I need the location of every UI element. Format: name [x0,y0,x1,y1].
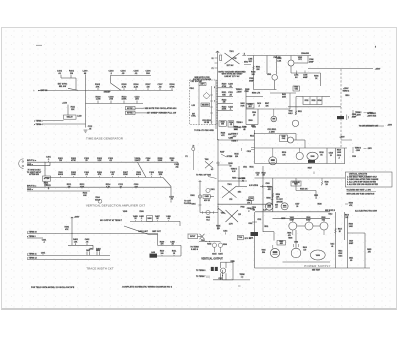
resistor R209 [170,158,175,162]
tube V606 [310,250,325,260]
wire [290,56,292,74]
svg-text:T202: T202 [205,159,209,161]
tube V304 [218,243,227,252]
svg-text:VOLTAGES MAY VARY +/- 20%: VOLTAGES MAY VARY +/- 20% [347,189,372,192]
capacitor C101 [57,71,63,78]
resistor R208 [158,158,164,162]
tube V507B [296,148,303,160]
wire [198,235,202,237]
svg-text:GT: GT [275,207,278,209]
notes box [345,172,392,187]
svg-text:REG: REG [294,184,298,186]
wire [257,109,259,125]
power bus dashed [340,69,342,148]
svg-text:CTRL: CTRL [191,115,196,117]
cluster [248,222,257,225]
note text [325,209,378,212]
label cluster [317,204,321,206]
wire [223,279,251,281]
svg-text:CRITICAL CIRCUITS: CRITICAL CIRCUITS [349,173,368,176]
label [191,113,196,117]
ground [84,130,88,132]
svg-text:.05: .05 [89,128,92,130]
svg-text:PRI: PRI [234,58,237,60]
label [345,95,356,158]
pot box R406 [147,216,153,222]
wire [255,147,348,149]
title text [31,286,75,289]
node INPUT A [27,159,37,162]
svg-text:o TERM 12: o TERM 12 [27,258,37,260]
label [191,81,204,83]
svg-text:VERTICAL OUTPUT: VERTICAL OUTPUT [201,258,223,261]
capacitor C408 [170,240,174,245]
wire [283,261,331,263]
svg-text:1M: 1M [70,73,73,75]
svg-text:C403: C403 [86,249,90,252]
label [214,87,215,103]
svg-text:INPUT A o: INPUT A o [27,159,37,162]
svg-text:6.3V: 6.3V [192,105,196,107]
svg-text:22K: 22K [159,174,163,176]
svg-text:C321: C321 [218,278,222,280]
svg-text:.1: .1 [244,129,245,131]
wire [85,75,87,104]
resistor R223 [218,106,234,110]
svg-text:250: 250 [135,99,139,101]
svg-text:+300V: +300V [74,217,80,219]
capacitor C404 [41,251,45,255]
wire [291,72,321,74]
capacitor C202 [84,158,89,162]
svg-text:WITH LINE AND TUBE CONDITION: WITH LINE AND TUBE CONDITION [347,192,375,195]
node SYNC [58,84,78,91]
svg-text:V508: V508 [311,156,315,158]
node TERM 4 [34,123,44,126]
svg-text:.02: .02 [159,86,163,88]
svg-text:R540: R540 [232,177,236,180]
capacitor C110 [135,96,141,103]
label [207,243,211,245]
terminal [353,147,373,153]
svg-text:220: 220 [235,156,238,158]
capacitor C201 [46,157,52,163]
wire [199,180,201,213]
svg-text:.02: .02 [109,160,112,162]
pot box R225 [228,121,234,127]
svg-text:100K: 100K [337,152,342,154]
wire [272,178,274,212]
wire [272,245,274,248]
svg-text:500: 500 [146,73,150,75]
connector J2 [192,146,195,151]
cluster [247,148,255,154]
svg-text:F1: F1 [212,68,214,70]
svg-text:R525 10K: R525 10K [300,189,308,191]
svg-text:V503: V503 [294,87,298,89]
svg-text:ATTEN SW: ATTEN SW [29,173,39,176]
svg-text:10K: 10K [265,106,269,108]
label cluster [231,141,237,143]
capacitor C402 [85,238,90,245]
node +150V [62,103,68,105]
label [345,215,349,219]
svg-text:V501: V501 [267,74,271,76]
svg-text:-150V: -150V [356,150,361,152]
label [329,153,333,157]
note text [145,107,178,110]
wire [271,186,273,204]
choke core [337,116,344,119]
wire [308,68,373,70]
svg-text:470K: 470K [71,159,76,162]
resistor R210 [158,172,163,178]
label [44,181,49,186]
svg-text:6.3: 6.3 [211,169,213,171]
svg-text:OA2: OA2 [282,137,286,140]
caption TIME BASE CIRCUIT [86,137,124,141]
svg-text:+150: +150 [62,103,68,105]
svg-text:10: 10 [230,165,232,167]
label [349,241,353,245]
wire [68,244,93,246]
svg-text:o TERM 10: o TERM 10 [27,232,37,234]
capacitor C405 [139,215,143,222]
note text [367,113,377,117]
resistor R401 [65,226,70,231]
capacitor C112 [88,126,92,130]
svg-text:R510: R510 [345,95,349,97]
svg-text:1K: 1K [173,253,176,255]
svg-text:POWER SUPPLY: POWER SUPPLY [304,264,331,268]
resistor R111 [71,107,76,111]
label [276,199,283,203]
wire [211,86,213,125]
svg-text:R408 C407: R408 C407 [138,230,148,233]
capacitor C212 [118,184,123,188]
label [375,69,381,71]
wire [135,112,146,114]
svg-text:.01: .01 [58,73,62,75]
svg-text:TO PIN 4 OF V205: TO PIN 4 OF V205 [196,173,211,176]
svg-text:C505: C505 [244,91,248,93]
adj box [246,103,254,108]
wire [273,218,331,220]
svg-text:R615: R615 [338,229,342,231]
resistor R316 [216,226,220,230]
svg-text:100: 100 [161,253,164,255]
svg-text:o TERM 3: o TERM 3 [34,120,43,122]
svg-text:DELAY: DELAY [67,116,74,119]
svg-text:T201: T201 [229,51,233,53]
svg-text:+350V BUS: +350V BUS [367,115,377,117]
label [231,169,237,173]
svg-text:.05: .05 [256,175,258,177]
resistor R615 [335,228,342,234]
capacitor C206 [84,172,89,178]
svg-text:15K: 15K [74,241,78,243]
connector P501 [249,197,254,204]
svg-text:TO TERM 7: TO TERM 7 [196,276,205,278]
wire [326,148,328,164]
attenuator box [43,176,51,181]
capacitor C403 [86,249,90,256]
svg-text:R508: R508 [266,197,270,199]
bus wire [217,140,219,230]
wire [44,162,46,176]
svg-text:FOR TELE-VISTA MODEL 12 OSCILL: FOR TELE-VISTA MODEL 12 OSCILLOSCOPE [31,286,75,289]
svg-text:1M: 1M [171,160,174,162]
comp tick [199,181,202,183]
capacitor C316 [223,230,227,234]
svg-text:C504 450V: C504 450V [301,52,310,55]
node TERM 3 [34,120,43,122]
label [232,177,236,180]
wire [200,212,218,214]
node INPUT GND [27,164,34,166]
svg-text:R513: R513 [312,100,316,102]
svg-text:+250V: +250V [339,137,345,139]
label cluster [231,134,237,138]
capacitor C208 [149,172,155,178]
transformer T302 [221,210,241,226]
svg-text:.05: .05 [111,174,115,176]
svg-text:.05: .05 [350,260,352,262]
label cluster [263,210,267,212]
svg-text:.25: .25 [253,115,255,117]
svg-text:4.7K: 4.7K [106,185,111,188]
input box [188,234,198,239]
wire [61,78,76,90]
svg-text:.1: .1 [151,174,154,176]
svg-text:10K: 10K [252,74,256,76]
svg-text:117V: 117V [229,224,234,226]
capacitor C506 [252,112,256,116]
svg-text:C530: C530 [352,156,356,158]
label cluster [251,126,255,128]
svg-text:6AK5: 6AK5 [218,253,222,256]
label [314,75,318,80]
wire [27,233,158,234]
svg-text:+350V: +350V [375,69,381,71]
svg-text:R606: R606 [287,233,291,235]
label cluster [265,103,269,107]
svg-text:3AP1: 3AP1 [200,83,204,86]
label [190,246,199,250]
wire [247,55,311,57]
svg-text:2.2K: 2.2K [97,160,102,162]
svg-text:C404: C404 [41,251,45,254]
resistor R524 [272,193,280,199]
cluster [294,242,299,247]
svg-text:1K: 1K [134,218,137,220]
page number [375,47,377,49]
svg-text:7: 7 [214,101,215,103]
svg-text:R509: R509 [248,120,252,122]
svg-text:330K: 330K [123,174,128,176]
resistor R503 [277,58,282,62]
label [274,57,281,59]
wire [296,191,316,199]
wire [138,162,147,177]
cluster [237,235,252,240]
svg-text:S501: S501 [244,62,248,64]
wire [294,134,306,149]
resistor R508 [266,197,273,199]
deflection diamond [203,93,210,100]
resistor R409 [160,240,164,245]
inductor L100 [83,70,89,74]
wire [71,217,73,245]
label cluster [234,127,247,131]
svg-text:L406: L406 [151,251,155,254]
svg-text:LINE AT 117 V AC: LINE AT 117 V AC [224,75,240,78]
label cluster [303,247,307,251]
svg-text:2.2K: 2.2K [134,86,139,88]
svg-text:.1: .1 [315,198,316,200]
svg-text:SWEEP: SWEEP [104,91,112,93]
svg-text:1K: 1K [315,78,318,80]
svg-text:470K: 470K [222,85,227,88]
wire [344,148,346,164]
note box 2 [126,111,136,114]
label [83,193,88,197]
resistor R203 [97,158,102,162]
svg-text:C511: C511 [257,219,261,221]
svg-text:.01: .01 [135,73,139,75]
svg-text:R610: R610 [303,247,307,249]
label [337,150,342,160]
svg-text:C513: C513 [247,151,251,153]
label [312,270,321,272]
tube V301 [206,188,215,192]
svg-text:C615: C615 [330,244,334,246]
svg-text:SEC: SEC [248,61,252,63]
svg-text:R608: R608 [288,238,292,240]
tube V502 [288,57,302,66]
svg-text:6AK5: 6AK5 [212,253,216,256]
wire [254,130,256,164]
label cluster [264,226,268,228]
resistor R220 [218,84,234,88]
svg-text:47K: 47K [96,85,100,88]
svg-text:.25: .25 [230,124,232,126]
label cluster [308,168,314,174]
svg-text:2.2K: 2.2K [277,61,281,63]
capacitor C401 [42,238,46,243]
svg-text:VERTICAL DEFLECTION AMPLIFIER: VERTICAL DEFLECTION AMPLIFIER CKT [86,203,145,207]
svg-text:6AU6: 6AU6 [136,173,141,176]
svg-text:GND o: GND o [27,164,34,166]
capacitor C107 [158,84,164,90]
tick [241,148,243,151]
capacitor C104 [121,70,127,76]
svg-text:TRACE WIDTH CKT: TRACE WIDTH CKT [86,267,114,271]
bus cluster [228,137,232,139]
svg-text:COMPLETE SCHEMATIC WIRING DIAG: COMPLETE SCHEMATIC WIRING DIAGRAM NO 2 [122,285,173,288]
svg-text:.05: .05 [147,160,151,162]
label cluster [282,93,287,98]
svg-text:R513: R513 [250,136,254,138]
wire [270,92,296,94]
svg-text:R527: R527 [308,168,312,170]
label [192,105,196,107]
label [184,200,192,204]
svg-text:HEATER: HEATER [202,103,210,106]
svg-text:470K: 470K [170,85,175,88]
svg-text:50K: 50K [221,124,225,126]
svg-text:117V AC: 117V AC [226,64,234,67]
svg-text:C608: C608 [294,242,298,244]
label [352,114,356,118]
pin ticks [210,95,213,113]
svg-text:22K: 22K [71,109,75,111]
tube V603 [320,217,328,230]
svg-text:5 AND 6: 5 AND 6 [191,248,198,251]
wire [192,151,194,170]
wire [335,212,337,268]
wire [27,190,90,192]
note text [100,219,122,222]
note text [347,189,377,196]
wire [198,85,200,124]
tube V501 [267,74,277,89]
capacitor C205 [174,162,179,168]
svg-text:SWP OUT: SWP OUT [152,231,161,233]
label cluster [295,204,299,208]
svg-text:.1: .1 [43,242,45,244]
svg-text:4.7K: 4.7K [122,85,127,88]
svg-text:R406: R406 [147,217,151,220]
svg-text:R514: R514 [318,99,322,102]
svg-text:1M: 1M [147,86,150,88]
node INPUT B [27,185,37,187]
svg-text:.1: .1 [48,159,51,161]
svg-text:SEE TEXT: SEE TEXT [312,270,321,272]
wire [158,244,182,246]
label [328,214,332,216]
inductor L110 [77,115,81,117]
svg-text:TERM 2: TERM 2 [343,91,350,93]
svg-text:2: 2 [214,87,215,89]
svg-text:V205: V205 [123,211,127,213]
svg-text:R301: R301 [191,204,195,206]
label [138,230,148,233]
capacitor C505 [303,71,308,79]
tube V201A [135,157,142,162]
svg-text:SEE NOTE FOR OSCILLATOR ADJ.: SEE NOTE FOR OSCILLATOR ADJ. [145,107,178,110]
svg-text:C509: C509 [265,183,269,185]
svg-text:C616: C616 [338,256,342,258]
wire [238,166,240,186]
wire [27,254,110,256]
tube V504b [288,93,298,127]
svg-text:PIN 1: PIN 1 [190,88,194,90]
label cluster [221,132,232,136]
svg-text:.1: .1 [230,109,232,111]
svg-text:P2: P2 [185,156,187,158]
svg-text:6.3V: 6.3V [232,171,236,173]
label cluster [240,274,246,278]
transformer T202 [205,159,214,171]
inductor L403 [89,247,101,250]
caption VERT OUTPUT [201,258,223,261]
wire [254,133,296,134]
resistor R106 [134,84,140,90]
wire [255,267,371,269]
svg-text:INTEN: INTEN [227,156,233,158]
label cluster [236,89,250,93]
